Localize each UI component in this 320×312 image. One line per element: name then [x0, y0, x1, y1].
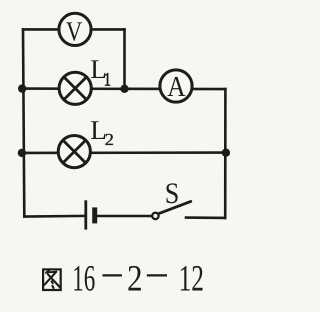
label L2 [90, 116, 114, 149]
wire: bottom left segment to battery [24, 215, 85, 218]
node junction dot left L2 [18, 149, 26, 157]
svg-text:16: 16 [72, 259, 95, 300]
caption dash 2 [147, 274, 167, 276]
caption character 图 (hand drawn) [43, 269, 61, 290]
svg-text:1: 1 [104, 70, 111, 90]
svg-text:V: V [66, 17, 83, 47]
node junction dot voltmeter leg on L1 wire [120, 85, 128, 93]
caption dash 1 [103, 274, 122, 276]
label L1 [90, 55, 111, 91]
lamp L1 [59, 72, 91, 104]
ammeter A [160, 70, 192, 103]
wire: L2 row horizontal [22, 151, 226, 154]
battery B1 short plate (negative) [92, 207, 97, 223]
svg-text:2: 2 [105, 132, 114, 150]
wire: right vertical bus [224, 89, 227, 218]
wire: voltmeter right leg vertical [123, 29, 126, 88]
svg-text:12: 12 [179, 259, 204, 300]
wire: top branch horizontal (voltmeter row) [23, 28, 125, 31]
wire: battery to switch segment [96, 215, 152, 218]
wire: left vertical bus [23, 29, 24, 216]
voltmeter V [59, 13, 91, 47]
node junction dot right L2 [222, 149, 230, 157]
paper background [0, 0, 242, 312]
svg-text:2: 2 [127, 259, 143, 300]
switch S hinge [152, 213, 158, 219]
lamp L2 [58, 136, 90, 168]
node junction dot left L1 [18, 84, 26, 92]
svg-text:A: A [167, 71, 186, 103]
wire: switch to bottom right corner [186, 216, 225, 219]
battery B1 long plate (positive) [84, 200, 87, 229]
svg-text:S: S [165, 178, 180, 210]
wire: L1/ammeter row horizontal [22, 87, 225, 90]
switch S lever [159, 201, 191, 213]
